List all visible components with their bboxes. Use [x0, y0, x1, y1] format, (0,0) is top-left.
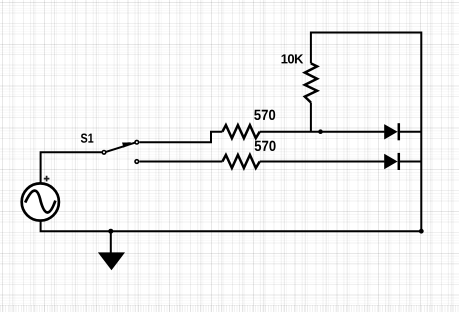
blade arm: [106, 143, 136, 152]
bottom contact circle: [135, 160, 139, 164]
wire 10K top / top rail / right bus: [311, 33, 421, 232]
AC voltage source: [22, 183, 59, 220]
wire R2 to diode D2 anode: [260, 161, 385, 163]
resistor R1 570 (top): [222, 125, 259, 138]
resistor R3 10K (vertical): [305, 63, 317, 102]
resistor R2 570 (bottom): [222, 155, 259, 168]
wire switch top contact to resistor R1 (with jog): [140, 132, 223, 143]
wire R1 to diode D1 anode: [260, 131, 385, 133]
switch S1: [102, 140, 138, 163]
blade arrowhead: [122, 142, 131, 148]
node junction dot (right bus / bottom return): [419, 229, 424, 234]
label 570 (R2): [255, 141, 276, 151]
diode D2: [384, 153, 399, 170]
wire D1 cathode to right bus: [399, 131, 422, 133]
label 570 (R1): [254, 110, 275, 120]
wire D2 cathode to right bus: [399, 161, 422, 163]
wire source-top to switch hinge: [41, 152, 102, 183]
ground: [98, 231, 125, 270]
label S1: [81, 134, 94, 143]
wire switch bottom contact to resistor R2: [140, 161, 223, 163]
node junction dot (ground tap): [108, 229, 113, 234]
diode D1: [384, 123, 399, 140]
top contact circle: [135, 140, 139, 144]
node junction dot (R1/10K net): [318, 129, 323, 134]
plus polarity mark: [44, 176, 50, 182]
hinge terminal circle: [102, 151, 106, 155]
label 10K (R3): [282, 54, 304, 63]
wire bottom return (source to right bus): [41, 220, 422, 231]
wire R3 bottom to node: [310, 103, 312, 132]
